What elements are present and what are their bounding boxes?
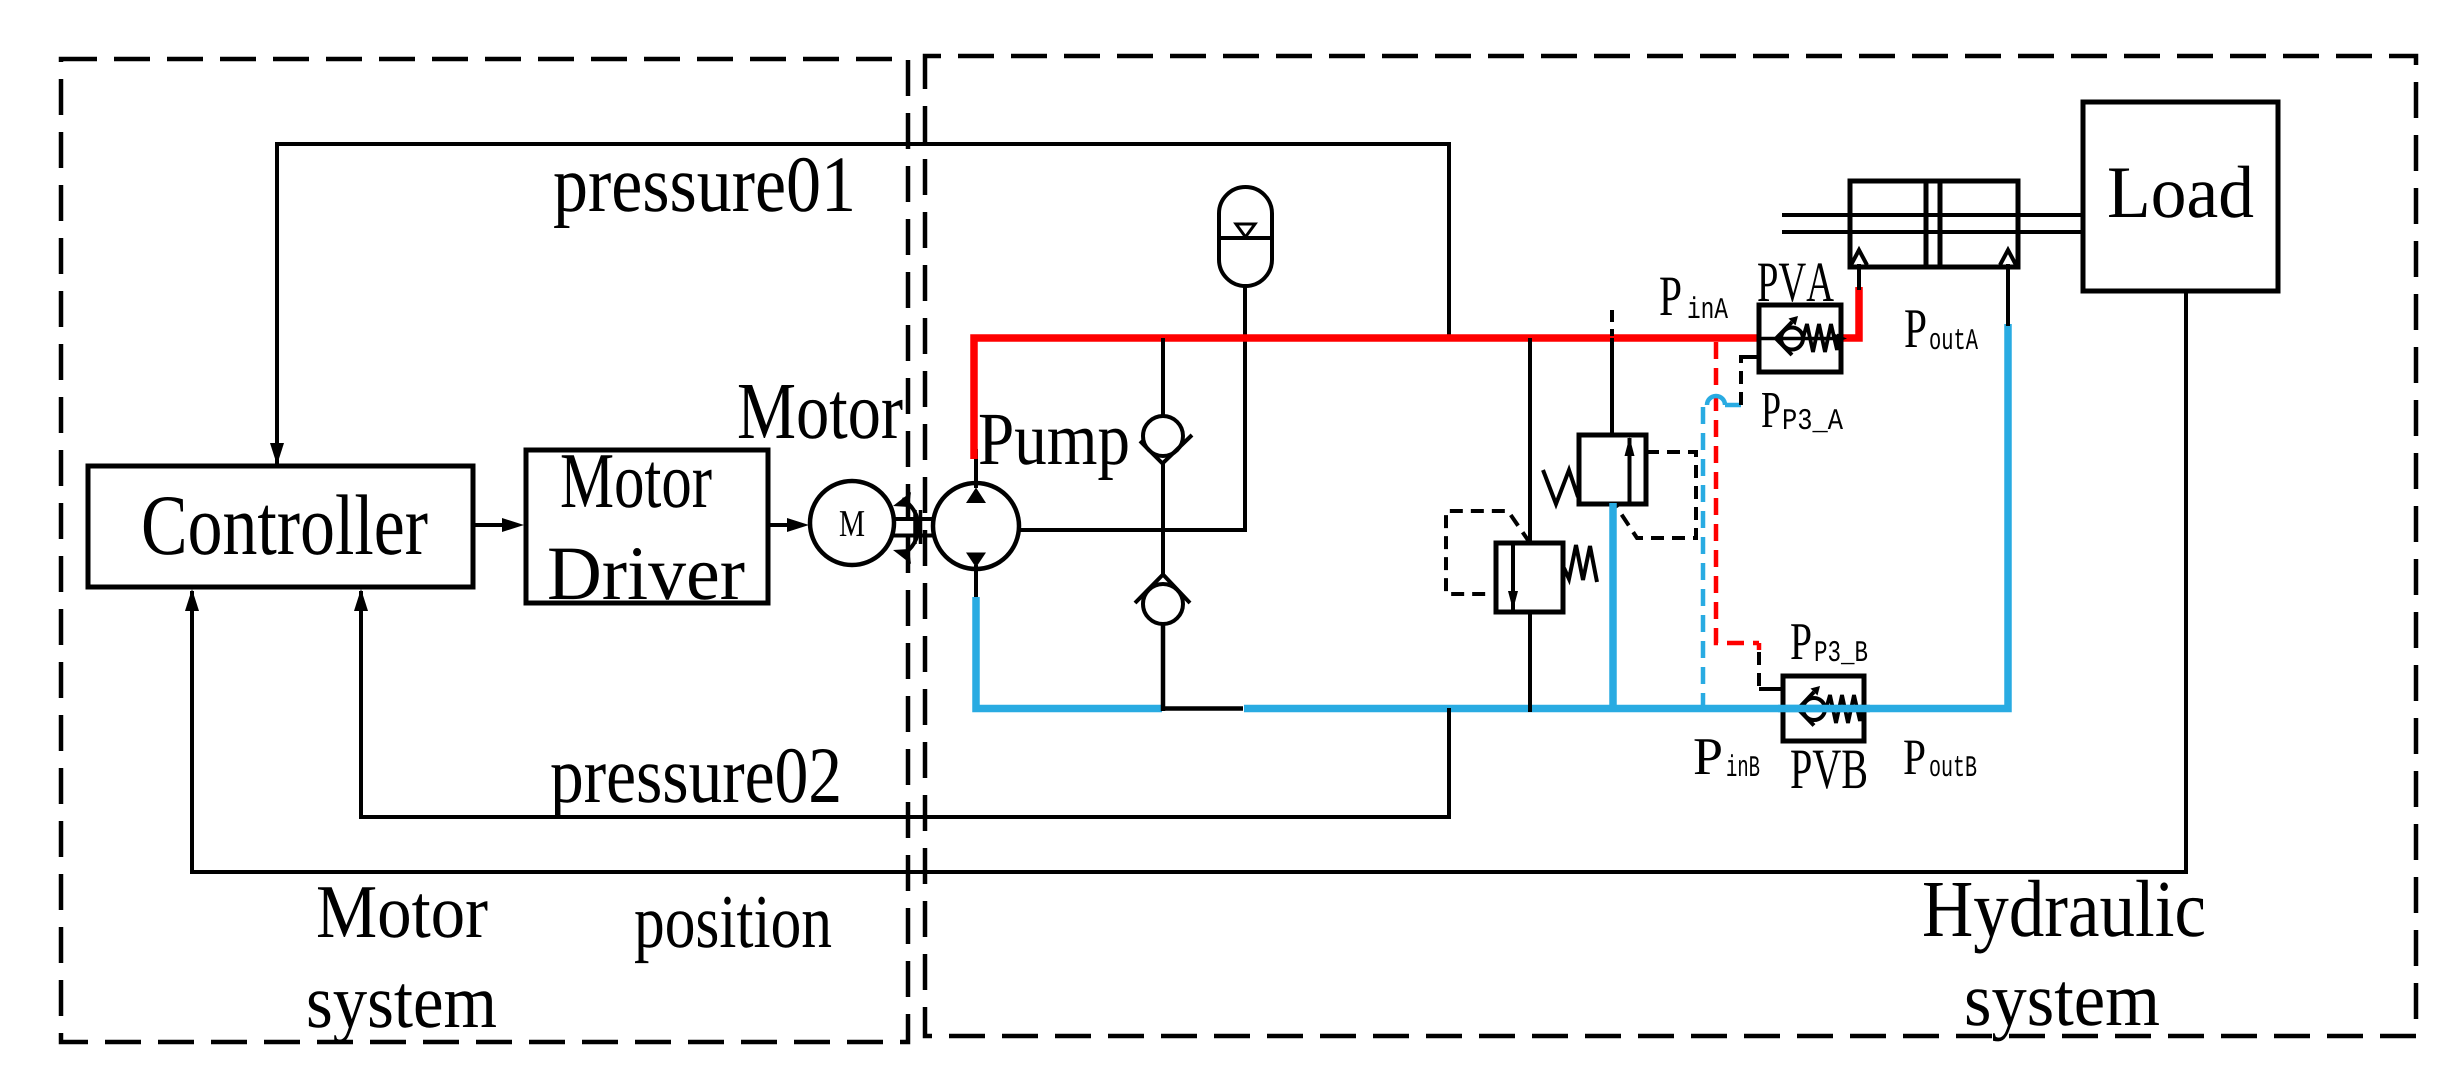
- label Motor (above motor circle): [739, 385, 903, 439]
- spring RV1: [1543, 470, 1578, 504]
- hydraulic system dashed boundary box: [925, 56, 2416, 1036]
- motor driver box: [526, 450, 768, 603]
- pilot black dashed to PVB: [1757, 652, 1761, 687]
- arrowhead into motor: [787, 518, 809, 532]
- PVA check ball circle: [1781, 328, 1803, 350]
- pilot blue dashed line P3 from line B: [1703, 405, 1707, 710]
- label P_inB: [1695, 739, 1721, 774]
- label PVA: [1758, 263, 1834, 301]
- cylinder rod: [1782, 213, 2083, 217]
- wire motor driver to motor: [768, 523, 801, 527]
- label Motor system: [318, 887, 487, 938]
- cylinder port B chevron: [2000, 250, 2016, 265]
- label position: [635, 897, 831, 964]
- pilot dashed line RV1: [1616, 452, 1696, 538]
- PVA pilot stub: [1741, 357, 1760, 405]
- check valve branch wire: [1161, 338, 1165, 416]
- label Hydraulic system: [1924, 880, 2204, 954]
- PVB check valve seat: [1798, 692, 1814, 726]
- accumulator: [1219, 187, 1272, 286]
- label P_P3_B: [1791, 624, 1810, 659]
- pilot dashed line RV2: [1446, 511, 1530, 594]
- check valve CV2 (lower): [1143, 584, 1183, 624]
- wire controller to motor driver: [473, 523, 517, 527]
- dashed stub P_inA tap: [1610, 310, 1614, 336]
- line B blue (pump to cylinder): [976, 324, 2008, 709]
- check valve CV1 (upper): [1143, 416, 1183, 456]
- wire pressure02 feedback: [361, 591, 1449, 817]
- wire check valve branch to line B elbow: [1161, 624, 1166, 711]
- wire pump bottom stub: [974, 565, 978, 600]
- relief valve RV1 (upper): [1579, 435, 1646, 504]
- label P_P3_A: [1762, 393, 1780, 427]
- wire position feedback: [192, 291, 2186, 872]
- PVB spring: [1826, 695, 1862, 723]
- label pressure02: [551, 749, 838, 819]
- PVB check ball circle: [1803, 698, 1825, 720]
- motor system dashed boundary box: [61, 59, 908, 1042]
- label P_outA: [1905, 310, 1925, 347]
- motor M1 circle: [810, 481, 894, 565]
- pump bottom port triangle: [966, 553, 986, 568]
- line B blue over PVB: [1778, 705, 1870, 713]
- spring RV2: [1564, 545, 1597, 582]
- line A red (PVA to cylinder): [1841, 287, 1859, 338]
- label PVB: [1791, 751, 1866, 789]
- pilot red dashed line P3 from line A: [1716, 342, 1759, 643]
- wire pump right charge port: [1019, 286, 1245, 530]
- shaft coupling motor-pump: [892, 517, 933, 521]
- label P_outB: [1904, 741, 1924, 774]
- wire pressure01 feedback (top): [277, 144, 1449, 466]
- pump P1 circle: [933, 483, 1019, 569]
- label Pump: [980, 415, 1128, 480]
- wire relief valve RV1 branch: [1610, 338, 1614, 435]
- arrowhead into controller top: [270, 443, 284, 465]
- relief valve RV2 (lower): [1496, 543, 1563, 612]
- load box: [2083, 102, 2278, 291]
- label pressure01: [554, 158, 852, 228]
- PVA spring: [1803, 324, 1839, 352]
- black overdrawn segment on line B: [1162, 704, 1244, 714]
- rotation arrow around shaft: [902, 499, 919, 555]
- PVB valve box: [1783, 676, 1864, 741]
- label P_inA: [1660, 278, 1680, 315]
- cylinder port A chevron: [1851, 250, 1867, 265]
- controller box: [88, 466, 473, 587]
- wire pressure01 tap is x=1449 above; wire relief valve RV2 branch: [1528, 338, 1532, 543]
- pump top port triangle: [966, 488, 986, 504]
- cylinder body: [1850, 181, 2018, 267]
- line A red (pump to PVA): [974, 338, 1759, 459]
- PVB pilot stub: [1759, 687, 1783, 691]
- wire pump top stub: [974, 449, 978, 488]
- cylinder piston: [1924, 181, 1929, 267]
- PVA valve box: [1759, 305, 1841, 372]
- line RV1 outlet blue: [1609, 503, 1617, 710]
- arrowhead into motor driver: [502, 518, 524, 532]
- PVA check valve seat: [1776, 322, 1792, 355]
